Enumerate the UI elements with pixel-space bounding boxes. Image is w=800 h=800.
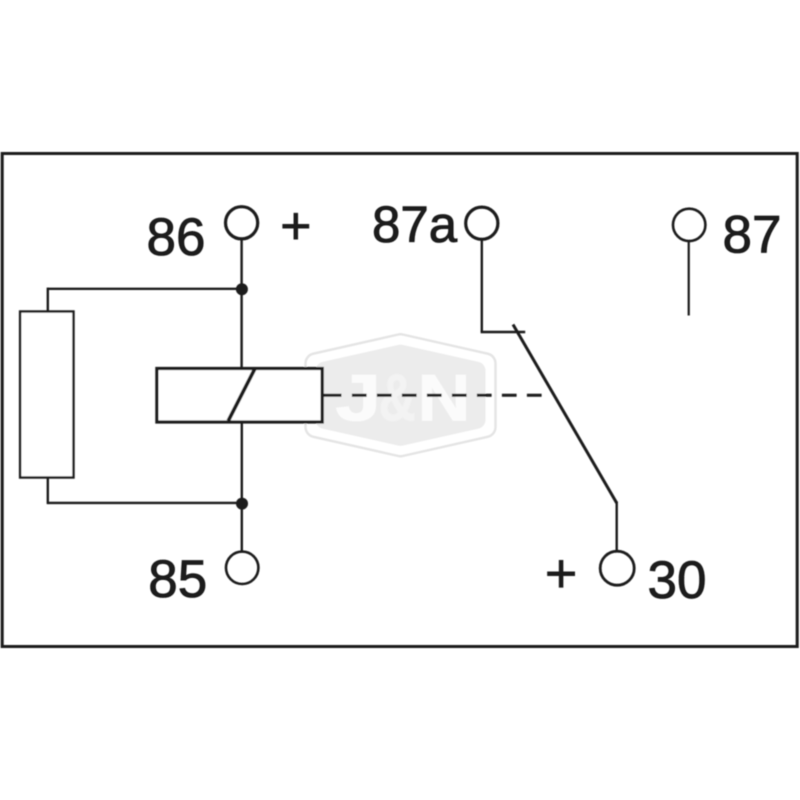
svg-text:86: 86 bbox=[147, 208, 206, 267]
wire junction A to left bbox=[48, 288, 242, 290]
svg-text:85: 85 bbox=[148, 550, 207, 609]
watermark J&N badge outline bbox=[305, 334, 495, 456]
wire 86 to coil top bbox=[240, 239, 242, 369]
wire 87a down bbox=[481, 239, 483, 332]
resistor R (parallel) bbox=[20, 312, 73, 478]
wire resistor bottom bbox=[47, 478, 49, 505]
svg-text:&: & bbox=[379, 360, 416, 435]
watermark J&N badge fill bbox=[315, 345, 485, 446]
fixed contact 87a bbox=[481, 331, 526, 333]
terminal 85 circle bbox=[226, 552, 258, 584]
junction node B bbox=[236, 498, 248, 510]
terminal 87 circle bbox=[673, 209, 705, 241]
switch armature bbox=[513, 325, 617, 504]
svg-text:N: N bbox=[418, 361, 471, 435]
mechanical link dashed line bbox=[352, 394, 542, 397]
coil diagonal stroke bbox=[228, 369, 254, 421]
relay coil K bbox=[157, 369, 322, 423]
mechanical link solid lead bbox=[322, 394, 342, 397]
svg-text:87a: 87a bbox=[372, 196, 458, 253]
relay body outline bbox=[2, 154, 797, 647]
junction node A bbox=[236, 283, 248, 295]
wire armature to 30 bbox=[616, 502, 618, 552]
plus sign at 30 bbox=[547, 560, 575, 588]
terminal 86 circle bbox=[226, 207, 258, 239]
svg-text:30: 30 bbox=[648, 551, 707, 610]
plus sign at 86 bbox=[282, 213, 309, 240]
wire down to resistor top bbox=[47, 288, 49, 312]
wire to junction B bbox=[48, 502, 242, 504]
terminal 87a circle bbox=[466, 207, 498, 239]
wire stub 87 bbox=[688, 242, 690, 316]
wire coil bottom to terminal 85 bbox=[241, 422, 243, 551]
terminal 30 circle bbox=[600, 551, 634, 585]
svg-text:87: 87 bbox=[723, 206, 782, 265]
svg-text:J: J bbox=[335, 360, 381, 434]
